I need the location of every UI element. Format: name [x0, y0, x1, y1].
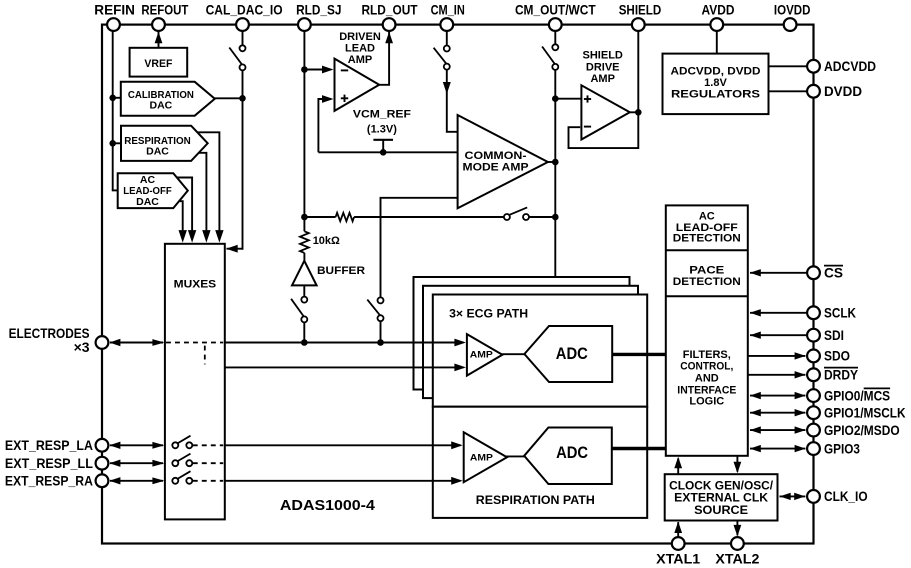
svg-text:DRDY: DRDY — [824, 367, 859, 383]
svg-text:ADCVDD: ADCVDD — [824, 58, 876, 74]
svg-text:BUFFER: BUFFER — [317, 265, 365, 277]
wire to driven lead amp inverting input — [304, 66, 333, 74]
svg-text:LOGIC: LOGIC — [689, 395, 724, 407]
svg-text:RLD_SJ: RLD_SJ — [296, 2, 341, 18]
pin GPIO2/MSDO — [807, 422, 900, 438]
wire CAL_DAC_IO rail — [226, 29, 246, 253]
wire regulators to ADCVDD — [769, 65, 808, 67]
svg-text:ADC: ADC — [556, 443, 588, 462]
wire ECG amp to ADC — [501, 353, 525, 355]
block ECG path back box — [414, 277, 630, 390]
svg-text:PACE: PACE — [689, 264, 724, 276]
switch on buffer output — [291, 297, 307, 323]
svg-text:DETECTION: DETECTION — [673, 276, 741, 288]
pin SCLK — [807, 305, 856, 321]
block clock gen — [665, 474, 778, 520]
wire GPIO2 bidirectional — [750, 426, 806, 433]
svg-text:3× ECG PATH: 3× ECG PATH — [449, 308, 528, 320]
wire mux to ECG amp upper — [225, 339, 466, 347]
wire resistor to buffer — [303, 253, 305, 261]
svg-text:SOURCE: SOURCE — [694, 505, 748, 517]
svg-text:MODE AMP: MODE AMP — [463, 162, 529, 174]
op-amp driven lead amp — [335, 31, 381, 111]
svg-text:CS: CS — [824, 265, 843, 281]
wire ECG ADC output bus — [612, 353, 666, 356]
svg-text:GPIO1/MSCLK: GPIO1/MSCLK — [824, 405, 906, 421]
wire respiration ADC output bus — [612, 447, 666, 450]
svg-text:ADCVDD, DVDD: ADCVDD, DVDD — [671, 65, 761, 77]
pin REFOUT — [141, 2, 188, 32]
pin EXT_RESP_LL — [5, 455, 108, 471]
pin CAL_DAC_IO — [206, 2, 283, 32]
pin CLK_IO — [807, 488, 868, 504]
svg-text:EXT_RESP_LA: EXT_RESP_LA — [5, 437, 93, 453]
svg-text:DVDD: DVDD — [824, 83, 862, 99]
wire to shield drive amp input — [555, 98, 581, 100]
wire EXT_RESP_LA to MUXES — [109, 442, 164, 449]
divider filters section — [666, 296, 748, 407]
mux electrode dashed route — [166, 343, 223, 365]
switch on common-mode sense line — [367, 297, 383, 321]
svg-text:CAL_DAC_IO: CAL_DAC_IO — [206, 2, 283, 18]
svg-text:SHIELD: SHIELD — [583, 49, 623, 61]
svg-text:DAC: DAC — [150, 100, 173, 112]
wire clock to filters — [674, 457, 682, 474]
op-amp RESP AMP — [464, 432, 507, 482]
wire VCM_REF bus — [318, 151, 457, 153]
junction common-mode amp output — [552, 159, 559, 166]
wire shield amp feedback — [569, 112, 639, 148]
pin DRDY — [807, 367, 858, 383]
pin CS — [807, 265, 843, 281]
mux switch EXT_RESP_LA — [172, 436, 223, 449]
junction REFIN to RESPIRATION DAC — [109, 140, 121, 147]
wire GPIO3 bidirectional — [750, 445, 806, 452]
wire REFIN reference rail — [112, 29, 118, 190]
junction RLD_SJ to inverting input — [301, 66, 308, 73]
svg-text:DAC: DAC — [146, 145, 169, 157]
wire mux to resp amp lower — [225, 477, 463, 485]
DAC RESPIRATION pentagon — [121, 126, 208, 161]
label ADAS1000-4 — [280, 497, 376, 514]
wire ELECTRODES to MUXES — [109, 339, 164, 346]
wire mux to resp amp upper — [225, 441, 463, 449]
wire to driven lead amp non-inverting input — [318, 95, 333, 152]
buffer amplifier — [292, 261, 365, 286]
svg-text:1.8V: 1.8V — [704, 77, 727, 89]
label 10k — [313, 235, 340, 247]
svg-text:LEAD: LEAD — [345, 43, 375, 55]
svg-text:CM_IN: CM_IN — [431, 2, 465, 18]
wire common-mode amp lower input — [381, 198, 458, 298]
op-amp shield drive amp — [581, 49, 629, 139]
op-amp common-mode amp — [458, 115, 548, 208]
svg-text:SCLK: SCLK — [824, 305, 856, 321]
wire DRDY output — [748, 371, 806, 378]
divider pace detection — [666, 250, 748, 288]
svg-text:CLOCK GEN/OSC/: CLOCK GEN/OSC/ — [669, 481, 774, 493]
switch on CAL_DAC_IO — [229, 45, 245, 70]
wire GPIO1 bidirectional — [750, 409, 806, 416]
resistor R 10k — [300, 231, 309, 253]
switch on CM_IN — [434, 46, 450, 70]
pin EXT_RESP_RA — [5, 473, 108, 489]
pin ELECTRODES x3 — [9, 325, 109, 355]
wire AC LEAD-OFF DAC upper output — [176, 178, 197, 243]
pin CM_OUT/WCT — [515, 2, 596, 32]
pin GPIO1/MSCLK — [807, 405, 906, 421]
pin SHIELD — [619, 2, 662, 32]
svg-text:XTAL2: XTAL2 — [715, 551, 759, 567]
svg-text:CLK_IO: CLK_IO — [824, 488, 868, 504]
svg-text:DRIVEN: DRIVEN — [339, 31, 381, 43]
svg-text:GPIO2/MSDO: GPIO2/MSDO — [824, 422, 900, 438]
block ECG path front box — [433, 295, 647, 407]
op-amp ECG AMP — [467, 334, 503, 376]
wire shield amp output to SHIELD pin — [630, 29, 642, 116]
pin XTAL1 — [656, 537, 700, 566]
svg-text:SHIELD: SHIELD — [619, 2, 662, 18]
wire AC LEAD-OFF DAC lower output — [179, 201, 187, 242]
wire AVDD to regulators — [716, 29, 718, 54]
pin ADCVDD — [807, 58, 876, 74]
resistor RLD feedback — [336, 213, 355, 221]
svg-text:AND: AND — [695, 373, 719, 385]
svg-text:(1.3V): (1.3V) — [367, 123, 397, 135]
svg-text:CONTROL,: CONTROL, — [680, 361, 733, 373]
mux switch EXT_RESP_RA — [172, 471, 223, 484]
junction shield amp input tap — [552, 95, 559, 102]
pin CM_IN — [431, 2, 465, 32]
switch on CM_OUT/WCT — [542, 44, 558, 70]
svg-text:×3: ×3 — [74, 339, 90, 355]
pin IOVDD — [774, 2, 811, 32]
svg-text:AMP: AMP — [470, 349, 494, 360]
wire SCLK input — [750, 309, 808, 316]
svg-text:XTAL1: XTAL1 — [656, 551, 700, 567]
svg-text:AC: AC — [699, 211, 715, 223]
block ECG path middle box — [423, 286, 638, 398]
svg-text:MUXES: MUXES — [174, 278, 217, 290]
pin AVDD — [702, 2, 735, 32]
pin DVDD — [807, 83, 862, 99]
wire CM_IN input — [443, 29, 458, 132]
ADC respiration converter — [524, 428, 612, 485]
svg-text:CM_OUT/WCT: CM_OUT/WCT — [515, 2, 596, 18]
VCM_REF source symbol — [373, 140, 393, 156]
wire RLD feedback branch — [304, 216, 555, 218]
pin XTAL2 — [715, 537, 759, 566]
svg-text:GPIO3: GPIO3 — [824, 440, 860, 456]
svg-text:AMP: AMP — [590, 73, 614, 85]
svg-text:EXT_RESP_LL: EXT_RESP_LL — [5, 455, 93, 471]
svg-text:AMP: AMP — [470, 453, 494, 464]
wire buffer output — [303, 285, 305, 342]
DAC AC LEAD-OFF pentagon — [118, 173, 188, 208]
svg-text:SDO: SDO — [824, 348, 850, 364]
wire CALIBRATION DAC output — [214, 97, 243, 99]
DAC CALIBRATION pentagon — [121, 82, 215, 116]
pin GPIO0/MCS — [807, 387, 890, 403]
junction sense line to electrode bus — [377, 339, 384, 346]
svg-text:FILTERS,: FILTERS, — [683, 349, 731, 361]
mux switch EXT_RESP_LL — [172, 454, 223, 467]
wire RESPIRATION DAC lower output — [199, 153, 211, 243]
wire clock to CLK_IO — [780, 493, 806, 500]
wire clock to XTAL2 — [734, 521, 742, 537]
pin RLD_SJ — [296, 2, 341, 32]
pin EXT_RESP_LA — [5, 437, 108, 453]
svg-text:VCM_REF: VCM_REF — [353, 108, 411, 120]
chip boundary ADAS1000-4 — [102, 25, 814, 544]
svg-text:SDI: SDI — [824, 327, 844, 343]
svg-text:IOVDD: IOVDD — [774, 2, 811, 18]
wire VREF to REFOUT — [155, 32, 163, 48]
wire EXT_RESP_LL to MUXES — [109, 460, 164, 467]
wire common-mode amp output — [547, 161, 556, 163]
wire regulators to DVDD — [769, 90, 808, 92]
wire mux to ECG amp lower — [225, 364, 466, 372]
svg-text:COMMON-: COMMON- — [465, 150, 527, 162]
ADC ECG converter — [524, 326, 612, 382]
pin SDO — [807, 348, 850, 364]
pin GPIO3 — [807, 440, 860, 456]
svg-text:ADAS1000-4: ADAS1000-4 — [280, 497, 376, 514]
svg-text:VREF: VREF — [144, 58, 172, 70]
wire EXT_RESP_RA to MUXES — [109, 477, 164, 484]
svg-text:DETECTION: DETECTION — [673, 233, 741, 245]
wire filters to clock — [734, 456, 742, 473]
switch common-mode feedback — [504, 207, 529, 220]
junction buffer to electrode line — [301, 339, 308, 346]
svg-text:REFIN: REFIN — [94, 2, 135, 18]
junction REFIN to CALIBRATION DAC — [109, 95, 121, 102]
svg-text:EXT_RESP_RA: EXT_RESP_RA — [5, 473, 93, 489]
wire CM_OUT/WCT rail — [554, 29, 556, 278]
svg-text:REFOUT: REFOUT — [141, 2, 188, 18]
block MUXES — [165, 244, 225, 520]
wire RESPIRATION DAC upper output — [196, 132, 223, 242]
svg-text:ADC: ADC — [556, 344, 588, 363]
wire driven lead amp output to RLD_OUT — [378, 32, 393, 85]
svg-text:GPIO0/MCS: GPIO0/MCS — [824, 387, 890, 403]
svg-text:REGULATORS: REGULATORS — [671, 88, 760, 100]
pin REFIN — [94, 2, 135, 32]
wire XTAL1 to clock — [674, 522, 682, 538]
wire CS to pace detection — [750, 269, 808, 276]
pin SDI — [807, 327, 844, 343]
wire SDI input — [750, 332, 808, 339]
block regulators — [663, 54, 769, 115]
svg-text:RLD_OUT: RLD_OUT — [361, 2, 417, 18]
wire switch to electrode bus — [380, 321, 382, 342]
svg-text:DRIVE: DRIVE — [586, 62, 620, 74]
block VREF — [130, 48, 188, 77]
wire RLD_SJ rail — [303, 29, 305, 231]
junction RLD_SJ to feedback resistor — [301, 214, 308, 221]
svg-text:RESPIRATION PATH: RESPIRATION PATH — [476, 495, 595, 507]
svg-text:10kΩ: 10kΩ — [313, 235, 340, 247]
svg-text:DAC: DAC — [136, 196, 159, 208]
block respiration path box — [433, 407, 647, 518]
wire GPIO0 bidirectional — [750, 392, 806, 399]
junction common-mode rail at switch — [552, 214, 559, 221]
label VCM_REF — [353, 108, 411, 135]
pin RLD_OUT — [361, 2, 417, 32]
wire resp amp to ADC — [505, 455, 525, 457]
block AC lead-off detection — [666, 205, 748, 455]
wire SDO output — [748, 352, 806, 359]
svg-text:AMP: AMP — [348, 54, 372, 66]
svg-text:EXTERNAL CLK: EXTERNAL CLK — [674, 493, 769, 505]
svg-text:AVDD: AVDD — [702, 2, 735, 18]
